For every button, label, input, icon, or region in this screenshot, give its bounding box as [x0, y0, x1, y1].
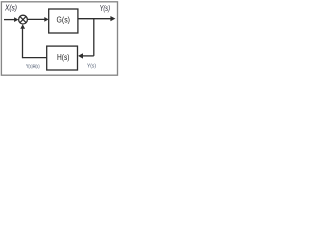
arrowhead into G — [44, 17, 48, 22]
svg-text:Y(s): Y(s) — [100, 3, 111, 13]
svg-text:H(s): H(s) — [57, 52, 70, 62]
svg-text:Y(s): Y(s) — [87, 63, 96, 69]
arrowhead into H — [78, 53, 83, 58]
border frame — [1, 2, 117, 75]
wire feedback tap vertical — [93, 19, 95, 56]
arrowhead into summing junction — [14, 17, 18, 22]
wire feedback right horizontal — [82, 55, 93, 57]
svg-text:X(s): X(s) — [4, 2, 17, 12]
summing junction X diagonal 2 — [20, 17, 26, 23]
wire input — [4, 19, 15, 21]
arrowhead output — [110, 16, 115, 21]
block G — [49, 9, 78, 33]
block H — [47, 46, 78, 70]
svg-text:Y(s)H(s): Y(s)H(s) — [26, 64, 40, 70]
wire feedback left horizontal — [23, 57, 47, 59]
summing junction X diagonal 1 — [20, 17, 26, 23]
wire feedback left vertical — [22, 28, 24, 58]
arrowhead up into summing junction — [20, 24, 25, 29]
svg-text:G(s): G(s) — [57, 15, 71, 25]
wire output — [78, 18, 111, 20]
wire summing junction to G — [27, 18, 44, 20]
background — [0, 0, 120, 78]
summing junction circle — [19, 15, 28, 24]
